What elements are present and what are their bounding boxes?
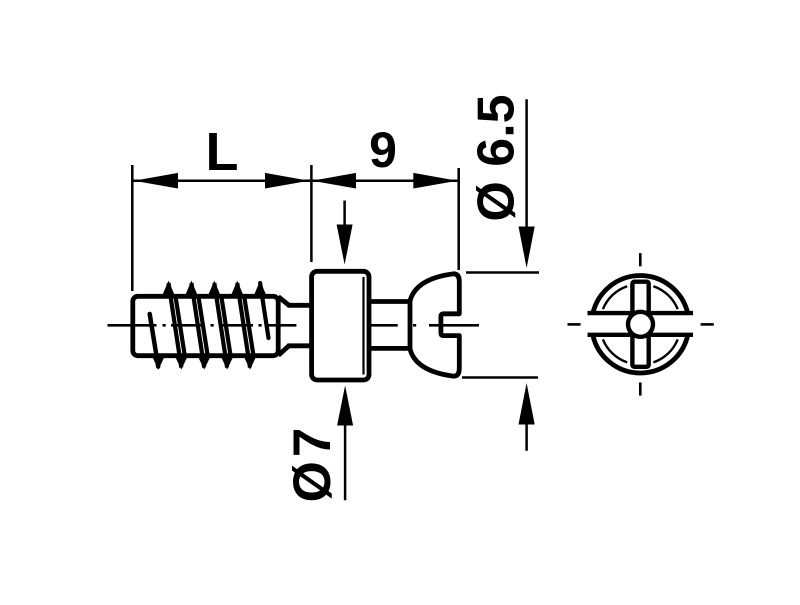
svg-text:9: 9 — [369, 122, 397, 178]
svg-text:L: L — [206, 122, 239, 182]
svg-text:Ø7: Ø7 — [283, 424, 342, 503]
svg-text:Ø 6.5: Ø 6.5 — [468, 94, 526, 221]
